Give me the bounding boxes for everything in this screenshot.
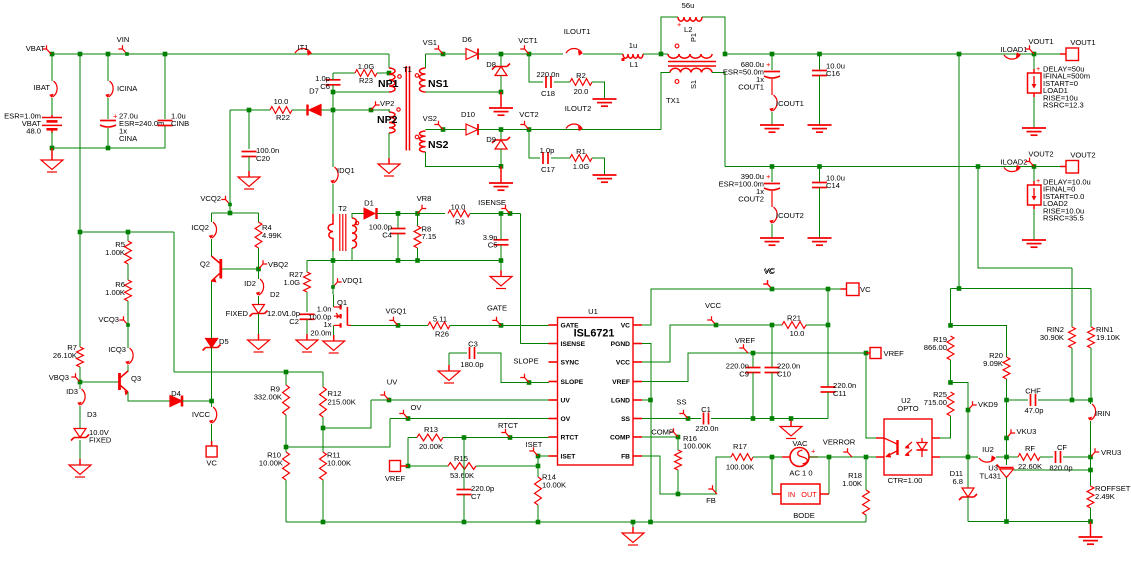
svg-text:ISENSE: ISENSE <box>561 341 586 348</box>
wire to ICINA <box>107 54 109 81</box>
junction <box>78 52 83 57</box>
wire VREF to opto C <box>866 353 876 438</box>
capacitor C3 <box>470 347 475 359</box>
wire VREF rail <box>642 353 866 382</box>
capacitor C6 <box>326 80 341 85</box>
svg-text:VS2: VS2 <box>423 114 437 123</box>
svg-text:IRIN: IRIN <box>1095 409 1110 418</box>
capacitor CF <box>1056 451 1061 463</box>
wire node to IVCC <box>211 401 213 407</box>
junction <box>499 52 504 57</box>
node VC <box>763 267 774 291</box>
svg-text:VOUT1: VOUT1 <box>1028 37 1053 46</box>
svg-text:VP2: VP2 <box>380 99 394 108</box>
wire C6 top lead <box>332 73 334 80</box>
junction <box>789 416 794 421</box>
current probe IDQ1 <box>330 167 338 184</box>
wire to C10 <box>771 325 773 368</box>
wire CHF out <box>1038 399 1091 401</box>
wire R27 to C2 <box>306 292 308 312</box>
capacitor C9 <box>746 368 761 373</box>
junction <box>256 267 261 272</box>
svg-text:R3: R3 <box>455 218 465 227</box>
junction <box>415 211 420 216</box>
resistor R17 <box>731 454 753 461</box>
wire to R10 <box>285 447 287 452</box>
node VCQ2 <box>200 194 231 206</box>
wire C20 to gnd <box>248 157 250 172</box>
wire ISENSE to U1 <box>521 214 550 344</box>
junction <box>284 370 289 375</box>
wire to D8 <box>500 54 502 66</box>
transformer T1 core <box>406 66 409 151</box>
junction <box>462 520 467 525</box>
svg-text:GATE: GATE <box>561 323 580 330</box>
junction <box>770 323 775 328</box>
wire VRU3 down <box>1090 457 1092 470</box>
ground SS <box>780 421 802 439</box>
svg-text:SYNC: SYNC <box>561 360 580 367</box>
wire VCT1 to ILOUT1 <box>529 53 563 55</box>
svg-text:VCC: VCC <box>705 301 722 310</box>
junction <box>714 323 719 328</box>
inductor L1 <box>622 54 644 61</box>
svg-text:215.00K: 215.00K <box>328 398 356 407</box>
transistor Q2 <box>211 256 221 283</box>
junction <box>331 108 336 113</box>
wire R13 left <box>408 437 417 439</box>
wire R10 to rail <box>285 480 287 522</box>
junction <box>966 455 971 460</box>
resistor R18 <box>863 490 870 515</box>
wire VS1 to D6 <box>426 53 467 55</box>
wire ILOUT1 to L1 <box>583 53 623 55</box>
wire ROFFSET to rail <box>1090 508 1092 522</box>
capacitor C10 <box>765 368 780 373</box>
wire to C9 <box>752 353 754 368</box>
junction <box>284 445 289 450</box>
node VIN <box>117 35 130 56</box>
wire VCT1 down <box>529 54 543 82</box>
svg-text:1.00K: 1.00K <box>105 248 125 257</box>
svg-text:C9: C9 <box>739 370 749 379</box>
svg-text:C3: C3 <box>468 340 478 349</box>
svg-text:ILOUT2: ILOUT2 <box>565 104 592 113</box>
resistor R7 <box>77 347 84 367</box>
svg-text:T1: T1 <box>403 65 412 74</box>
junction <box>50 146 55 151</box>
wire C11 down <box>827 392 829 419</box>
resistor RF <box>1018 454 1040 461</box>
ground C5 <box>490 271 512 289</box>
wire C17 to R1 <box>551 157 570 159</box>
resistor R15 <box>448 463 476 470</box>
wire VCQ3 to ICQ3 <box>127 325 129 348</box>
wire COUT2 to probe <box>771 191 773 207</box>
wire R8 to return <box>417 248 419 261</box>
resistor R13 <box>417 434 443 441</box>
junction <box>209 399 214 404</box>
svg-text:CF: CF <box>1057 443 1067 452</box>
wire fb top row <box>951 288 1092 290</box>
junction <box>1004 455 1009 460</box>
wire to R11 <box>322 428 324 452</box>
current source LOAD2 <box>1028 181 1042 209</box>
svg-text:C1: C1 <box>701 405 711 414</box>
wire down to R7 <box>79 232 81 347</box>
node VCC <box>705 301 722 327</box>
junction <box>50 52 55 57</box>
svg-text:BODE: BODE <box>793 511 815 520</box>
svg-text:VBAT: VBAT <box>26 44 46 53</box>
wire D10 out <box>478 129 592 131</box>
ground C3 <box>438 365 460 383</box>
junction <box>106 52 111 57</box>
svg-text:Q3: Q3 <box>131 374 141 383</box>
wire input gnd bus <box>52 126 165 148</box>
junction <box>499 258 504 263</box>
wire IU2 to U3 <box>996 456 1007 458</box>
wire FB net <box>642 456 731 494</box>
wire C6 bottom lead <box>332 85 334 92</box>
junction <box>499 323 504 328</box>
svg-text:VDQ1: VDQ1 <box>342 276 363 285</box>
node VR8 <box>417 194 432 214</box>
svg-text:SS: SS <box>621 416 630 423</box>
junction <box>321 426 326 431</box>
wire LGND <box>642 399 651 401</box>
wire R19 out <box>950 360 952 383</box>
svg-text:ISENSE: ISENSE <box>478 198 506 207</box>
battery VBAT 48.0 ESR=1.0m <box>42 115 62 133</box>
wire base to VBQ2 <box>222 268 259 270</box>
wire VBQ3 to base <box>80 381 118 383</box>
junction <box>396 211 401 216</box>
wire R21 riser <box>827 289 829 325</box>
zener diode D2 <box>250 305 268 317</box>
svg-text:10.0: 10.0 <box>451 203 466 212</box>
junction <box>659 52 664 57</box>
svg-text:ISL6721: ISL6721 <box>574 328 615 340</box>
diode D6 <box>466 49 478 60</box>
svg-text:AC 1 0: AC 1 0 <box>789 469 812 478</box>
node COMP <box>651 428 678 438</box>
wire T2 sec to D1 <box>352 214 364 219</box>
svg-text:VREF: VREF <box>884 349 905 358</box>
wire to D5 <box>211 281 213 339</box>
probe BODE (IN/OUT) <box>772 484 829 504</box>
junction <box>631 520 636 525</box>
svg-text:R21: R21 <box>787 314 801 323</box>
wire ICOUT2 to gnd <box>771 224 773 238</box>
wire to R16 <box>677 437 679 450</box>
wire R26 to U1 <box>450 324 549 326</box>
svg-text:ISET: ISET <box>561 454 577 461</box>
wire ID2 to D2 <box>258 296 260 305</box>
wire Q2 cell top <box>211 212 258 214</box>
wire LED K to IU2 <box>940 456 978 458</box>
transformer T1 primary NP1 <box>389 68 401 92</box>
node VS1 <box>423 38 443 54</box>
resistor R5 <box>125 241 132 264</box>
junction <box>406 416 411 421</box>
wire R11 to rail <box>322 480 324 522</box>
svg-text:30.90K: 30.90K <box>1040 333 1064 342</box>
wire UV to U1 <box>371 399 549 401</box>
optocoupler U2 OPTO <box>876 419 940 475</box>
svg-text:R26: R26 <box>435 330 449 339</box>
capacitor C11 <box>821 387 836 392</box>
node VS2 <box>423 114 443 130</box>
zener diode D3 <box>71 429 89 441</box>
wire VOUT2 riser <box>978 167 1072 269</box>
transformer T1 primary NP2 <box>389 108 400 133</box>
svg-text:FB: FB <box>706 496 716 505</box>
svg-text:COMP: COMP <box>610 435 631 442</box>
wire NP2 gnd <box>388 133 390 160</box>
wire IVCC to VC port <box>211 424 213 441</box>
wire VIN to R5 row <box>79 54 81 232</box>
svg-text:D5: D5 <box>219 337 229 346</box>
junction <box>1032 164 1037 169</box>
node UV <box>380 378 398 401</box>
capacitor C4 <box>391 229 406 234</box>
svg-text:VIN: VIN <box>117 35 130 44</box>
svg-text:10.00K: 10.00K <box>259 459 283 468</box>
svg-text:VCQ2: VCQ2 <box>200 194 221 203</box>
diode D4 <box>170 396 182 407</box>
junction <box>499 164 504 169</box>
junction <box>406 464 411 469</box>
node VREF <box>735 336 756 353</box>
junction <box>78 380 83 385</box>
svg-text:IDQ1: IDQ1 <box>337 166 355 175</box>
AC source VAC <box>782 448 818 467</box>
current probe ICQ2 <box>209 222 217 239</box>
junction <box>536 520 541 525</box>
wire to R14 <box>537 466 539 477</box>
current probe ILOUT2 <box>566 124 583 131</box>
capacitor C14 <box>812 183 827 188</box>
junction <box>126 230 131 235</box>
wire C6 to R23 <box>333 72 355 74</box>
junction <box>1004 436 1009 441</box>
svg-text:VAC: VAC <box>792 439 808 448</box>
wire U3 ref row <box>1014 469 1091 471</box>
ground COUT1 <box>760 125 784 132</box>
wire divider top <box>174 371 323 373</box>
wire D9 gnd stem <box>500 166 502 183</box>
junction <box>648 520 653 525</box>
wire UV tap <box>323 400 371 428</box>
svg-text:820.0p: 820.0p <box>1049 464 1072 473</box>
svg-text:IVCC: IVCC <box>192 410 211 419</box>
current probe IVCC <box>209 407 217 424</box>
ground D8 <box>489 108 513 115</box>
node SLOPE <box>513 357 538 383</box>
svg-text:LGND: LGND <box>611 398 630 405</box>
wire CINA to gnd bus <box>107 128 109 148</box>
resistor R1 <box>570 155 592 162</box>
svg-text:VREF: VREF <box>735 336 756 345</box>
current source LOAD1 <box>1028 69 1042 97</box>
wire battery to bottom <box>51 132 53 148</box>
resistor R14 <box>535 477 542 505</box>
junction <box>817 164 822 169</box>
capacitor C2 <box>300 314 315 319</box>
junction <box>957 52 962 57</box>
wire L1 out <box>643 53 668 55</box>
junction <box>966 408 971 413</box>
junction <box>228 211 233 216</box>
wire bottom rail <box>286 521 866 523</box>
wire to C11 <box>827 325 829 387</box>
capacitor CINB <box>158 121 173 126</box>
wire to IDQ1 <box>332 110 334 167</box>
wire R20 node to U3 <box>1006 400 1008 457</box>
current probe IRIN <box>1088 404 1096 421</box>
svg-text:1.0G: 1.0G <box>284 278 301 287</box>
wire R17 to VAC <box>753 456 783 458</box>
junction <box>331 90 336 95</box>
ground R2 <box>593 99 617 106</box>
wire VOUT1 rail <box>725 53 1064 55</box>
wire NS2 return <box>426 152 502 166</box>
ground C14 <box>808 238 832 245</box>
svg-text:FIXED: FIXED <box>89 436 112 445</box>
junction <box>441 127 446 132</box>
wire VOUT1 riser <box>958 54 960 289</box>
svg-text:48.0: 48.0 <box>26 127 41 136</box>
current probe ID2 <box>256 279 264 296</box>
node VRU3 <box>1091 448 1122 457</box>
wire ICOUT1 to gnd <box>771 112 773 125</box>
junction <box>1070 398 1075 403</box>
svg-text:5.11: 5.11 <box>433 315 447 324</box>
wire NP1 bottom <box>333 91 389 93</box>
wire OV tap <box>286 419 390 448</box>
svg-text:56u: 56u <box>682 1 695 10</box>
wire BODE right <box>828 457 830 494</box>
wire to R18 <box>865 457 867 490</box>
svg-text:20.0m: 20.0m <box>310 329 331 338</box>
wire T2 sec return <box>351 248 353 261</box>
wire R13 to RTCT <box>443 437 549 439</box>
wire ICINA to CINA <box>107 98 109 119</box>
svg-text:10.00K: 10.00K <box>327 459 351 468</box>
junction <box>508 435 513 440</box>
svg-text:C4: C4 <box>382 231 392 240</box>
svg-text:CTR=1.00: CTR=1.00 <box>888 476 923 485</box>
ground D9 <box>489 183 513 190</box>
wire R18 to rail <box>865 515 867 522</box>
junction <box>1088 398 1093 403</box>
wire U3 to rail <box>1006 478 1008 522</box>
transformer TX1 winding P1 <box>668 44 712 58</box>
svg-text:C16: C16 <box>826 69 840 78</box>
svg-text:UV: UV <box>561 398 571 405</box>
svg-text:R17: R17 <box>733 442 747 451</box>
svg-text:D1: D1 <box>364 199 374 208</box>
svg-text:1.0G: 1.0G <box>358 62 375 71</box>
junction <box>536 464 541 469</box>
wire R7 out <box>79 367 81 382</box>
ground C20 <box>238 171 260 189</box>
svg-text:PGND: PGND <box>611 341 630 348</box>
svg-text:D6: D6 <box>462 35 472 44</box>
svg-text:VERROR: VERROR <box>823 438 856 447</box>
junction <box>1032 52 1037 57</box>
wire C3 to SLOPE <box>477 353 549 383</box>
junction <box>247 108 252 113</box>
svg-text:SLOPE: SLOPE <box>561 379 584 386</box>
wire VBQ2 to ID2 <box>258 269 260 279</box>
wire C4 to return <box>397 234 399 261</box>
junction <box>1088 468 1093 473</box>
svg-text:VRU3: VRU3 <box>1101 448 1121 457</box>
wire S1 to ILOUT2 row <box>661 73 670 130</box>
wire D8 gnd stem <box>500 92 502 108</box>
wire VIN rail <box>51 53 389 55</box>
svg-text:RF: RF <box>1025 444 1035 453</box>
wire to R19 node <box>950 289 952 326</box>
resistor R20 <box>1003 357 1010 379</box>
diode D10 <box>466 124 478 135</box>
junction <box>864 455 869 460</box>
svg-text:VREF: VREF <box>612 379 630 386</box>
wire to R22 <box>249 109 270 111</box>
svg-text:P1: P1 <box>689 33 698 42</box>
wire C7 to rail <box>463 495 465 523</box>
junction <box>499 211 504 216</box>
resistor R25 <box>947 392 954 416</box>
wire D4 out <box>182 400 212 402</box>
capacitor C17 <box>543 152 548 164</box>
wire RIN2 out <box>1071 348 1073 400</box>
resistor R12 <box>320 387 327 417</box>
resistor R23 <box>355 70 377 77</box>
current probe IU2 <box>979 455 996 462</box>
wire to RIN2 <box>1071 268 1073 327</box>
svg-text:100.00K: 100.00K <box>726 463 754 472</box>
wire C5 to return <box>500 245 502 271</box>
wire to C5 <box>500 214 502 240</box>
svg-text:R15: R15 <box>454 454 468 463</box>
svg-text:ILOUT1: ILOUT1 <box>564 27 591 36</box>
svg-text:D9: D9 <box>486 135 496 144</box>
capacitor C16 <box>812 71 827 76</box>
wire IBAT to battery <box>51 98 53 115</box>
svg-text:D7: D7 <box>309 87 319 96</box>
node OV <box>399 403 422 419</box>
wire R12 out <box>322 417 324 428</box>
node VBAT <box>26 44 51 54</box>
wire NS1 to VS1 <box>425 54 427 68</box>
wire R21 out <box>806 324 828 326</box>
wire ISET down <box>537 456 539 466</box>
resistor R10 <box>283 452 290 480</box>
ground R1 <box>593 175 617 182</box>
node VCT2 <box>519 110 538 130</box>
wire to RIN1 <box>1090 289 1092 328</box>
svg-text:S1: S1 <box>689 80 698 89</box>
svg-text:866.00: 866.00 <box>924 343 947 352</box>
svg-text:715.00: 715.00 <box>924 398 947 407</box>
ground rail <box>622 527 644 545</box>
resistor R16 <box>675 450 682 470</box>
junction <box>648 398 653 403</box>
ground D3 <box>69 459 91 477</box>
